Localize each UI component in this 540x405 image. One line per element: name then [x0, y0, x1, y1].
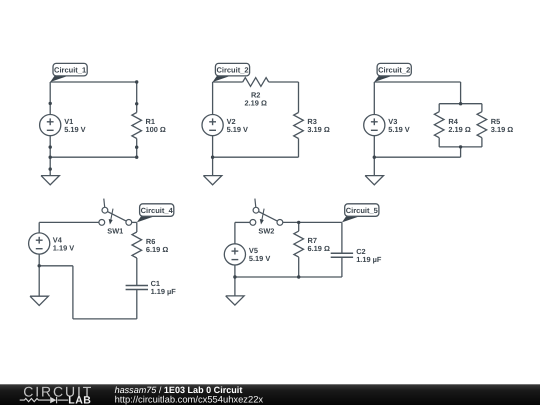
svg-text:SW2: SW2	[258, 227, 274, 236]
svg-text:3.19 Ω: 3.19 Ω	[307, 125, 329, 134]
svg-text:SW1: SW1	[107, 227, 123, 236]
svg-text:2.19 Ω: 2.19 Ω	[448, 125, 470, 134]
svg-text:5.19 V: 5.19 V	[64, 125, 85, 134]
svg-text:5.19 V: 5.19 V	[227, 125, 248, 134]
svg-text:100 Ω: 100 Ω	[146, 125, 166, 134]
svg-text:Circuit_2: Circuit_2	[216, 66, 248, 75]
svg-text:Circuit_1: Circuit_1	[54, 66, 86, 75]
svg-text:http://circuitlab.com/cx554uhx: http://circuitlab.com/cx554uhxez22x	[115, 394, 264, 405]
svg-text:5.19 V: 5.19 V	[388, 125, 409, 134]
svg-text:5.19 V: 5.19 V	[249, 254, 270, 263]
svg-text:1.19 µF: 1.19 µF	[151, 287, 177, 296]
svg-text:1.19 V: 1.19 V	[53, 243, 74, 252]
svg-text:6.19 Ω: 6.19 Ω	[146, 245, 168, 254]
svg-text:Circuit_4: Circuit_4	[141, 206, 174, 215]
svg-text:3.19 Ω: 3.19 Ω	[491, 125, 513, 134]
svg-text:6.19 Ω: 6.19 Ω	[308, 244, 330, 253]
svg-text:2.19 Ω: 2.19 Ω	[245, 99, 267, 108]
svg-text:1.19 µF: 1.19 µF	[356, 255, 382, 264]
svg-text:Circuit_5: Circuit_5	[346, 206, 378, 215]
svg-text:LAB: LAB	[68, 394, 91, 405]
svg-text:Circuit_2: Circuit_2	[378, 66, 410, 75]
